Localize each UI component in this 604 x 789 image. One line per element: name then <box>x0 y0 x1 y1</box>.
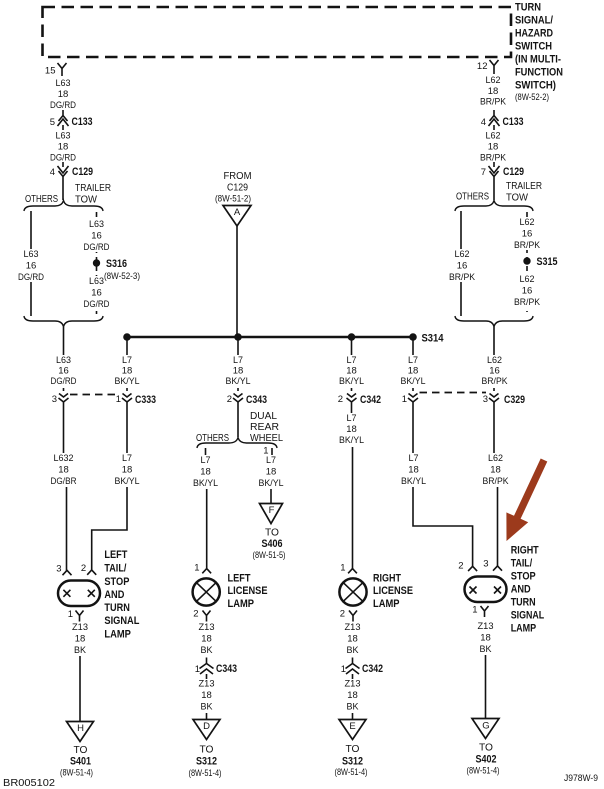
svg-text:BR/PK: BR/PK <box>514 297 541 308</box>
splice S314 <box>409 333 443 345</box>
svg-text:1: 1 <box>472 605 477 616</box>
svg-text:L63: L63 <box>56 78 71 89</box>
svg-text:1: 1 <box>402 394 407 405</box>
right tail lamp pin 2 <box>458 561 477 572</box>
svg-text:L62: L62 <box>488 453 503 464</box>
svg-text:C133: C133 <box>72 116 93 128</box>
wire L62 label (C133 to C129 right) <box>480 131 507 164</box>
svg-text:C333: C333 <box>135 394 156 406</box>
svg-text:Z13: Z13 <box>199 679 215 690</box>
connector C329 pin 3 <box>483 394 525 408</box>
svg-text:18: 18 <box>58 89 69 100</box>
svg-text:3: 3 <box>483 394 488 405</box>
svg-text:TURN: TURN <box>104 602 130 614</box>
svg-text:TO: TO <box>265 528 279 539</box>
svg-text:HAZARD: HAZARD <box>515 28 553 40</box>
svg-text:L7: L7 <box>233 355 243 366</box>
label TO S406 <box>253 528 286 561</box>
label TO S312 (left) <box>189 745 222 779</box>
connector C129 left <box>50 162 93 182</box>
splice S315 <box>523 256 557 268</box>
svg-text:1: 1 <box>340 563 345 574</box>
svg-text:H: H <box>77 723 84 734</box>
wire label L62 16 BR/PK (above C329) <box>480 355 510 388</box>
wire label Z13 18 BK (left tail) <box>72 622 88 656</box>
footer id BR005102 <box>3 778 55 789</box>
svg-text:BR/PK: BR/PK <box>480 153 507 164</box>
wire left tail lamp to ground triangle H <box>79 656 81 722</box>
svg-text:TO: TO <box>200 745 214 756</box>
left tail lamp pin 3 <box>56 564 71 576</box>
svg-text:LAMP: LAMP <box>228 598 255 610</box>
svg-text:18: 18 <box>480 633 491 644</box>
svg-text:BK: BK <box>480 644 493 655</box>
svg-text:18: 18 <box>347 690 358 701</box>
turn signal / hazard switch (dashed box) <box>43 7 512 57</box>
left license lamp pin 1 <box>194 563 211 574</box>
svg-text:AND: AND <box>104 589 124 601</box>
connector C333 pin 1 <box>116 394 156 408</box>
wire label L62 18 BR/PK (below C329) <box>481 453 511 487</box>
svg-text:BR/PK: BR/PK <box>480 97 507 108</box>
svg-text:DG/RD: DG/RD <box>50 153 76 164</box>
wire label L7 18 BK/YL (4th column) <box>399 453 429 487</box>
label DUAL REAR WHEEL <box>250 411 283 444</box>
connector C342 pin 2 <box>338 394 381 408</box>
label TO S401 <box>60 745 93 778</box>
svg-text:18: 18 <box>488 86 499 97</box>
svg-text:DG/BR: DG/BR <box>51 476 77 487</box>
pin 12 <box>477 60 499 74</box>
wire label Z13 18 BK (below C343) <box>199 679 215 713</box>
svg-text:7: 7 <box>481 167 486 178</box>
svg-text:2: 2 <box>227 394 232 405</box>
wire trailer tow branch left (dashed) <box>96 212 98 314</box>
wire label Z13 18 BK (right tail) <box>478 621 494 655</box>
splice S316 <box>93 258 127 270</box>
out triangle D <box>193 720 220 740</box>
connector C342 pin 1 (lower) <box>341 658 383 680</box>
svg-text:1: 1 <box>68 609 73 620</box>
right license lamp name <box>373 573 413 611</box>
connector C133 right <box>481 110 524 130</box>
left license lamp name <box>228 573 268 611</box>
bus wire S314 net <box>127 336 413 339</box>
svg-text:BR005102: BR005102 <box>3 778 55 789</box>
svg-text:C129: C129 <box>227 183 248 194</box>
wire label L62 16 BR/PK (others branch) <box>447 249 477 283</box>
wire bus to C343 pin 2 <box>237 337 239 391</box>
svg-text:TOW: TOW <box>75 195 98 206</box>
svg-text:(8W-51-4): (8W-51-4) <box>189 768 222 778</box>
svg-text:DG/RD: DG/RD <box>50 100 76 111</box>
dashed link C333 <box>70 394 120 396</box>
svg-text:OTHERS: OTHERS <box>25 194 58 205</box>
svg-text:L7: L7 <box>266 455 276 466</box>
label OTHERS (middle) <box>196 433 229 444</box>
wire others branch to left license lamp pin 1 <box>206 448 207 569</box>
svg-text:DG/RD: DG/RD <box>84 242 110 253</box>
svg-text:L62: L62 <box>486 75 501 86</box>
svg-text:18: 18 <box>346 424 357 435</box>
svg-text:C343: C343 <box>216 663 237 675</box>
svg-text:18: 18 <box>347 634 358 645</box>
wire label L7 18 BK/YL (above C342) <box>337 355 366 388</box>
svg-text:(8W-51-4): (8W-51-4) <box>60 768 93 778</box>
svg-text:L62: L62 <box>520 274 535 285</box>
svg-text:FUNCTION: FUNCTION <box>515 67 563 79</box>
svg-text:18: 18 <box>75 634 86 645</box>
wire label L7 18 BK/YL (license branch) <box>191 455 220 489</box>
connector C133 left <box>50 110 93 130</box>
svg-text:Z13: Z13 <box>199 622 215 633</box>
svg-text:4: 4 <box>50 167 55 178</box>
left license lamp pin 2 <box>193 609 210 622</box>
label OTHERS (right) <box>456 192 489 203</box>
svg-text:C133: C133 <box>503 116 524 128</box>
svg-text:RIGHT: RIGHT <box>373 573 401 585</box>
svg-text:L7: L7 <box>409 453 419 464</box>
wire to split <box>62 182 64 200</box>
label TRAILER TOW (right) <box>506 181 542 204</box>
svg-text:BK/YL: BK/YL <box>401 476 426 487</box>
label TO S402 <box>467 743 500 776</box>
highlight arrow (rust colored) <box>506 459 547 542</box>
svg-text:TO: TO <box>74 745 88 756</box>
svg-text:OTHERS: OTHERS <box>456 192 489 203</box>
svg-text:5: 5 <box>50 117 55 128</box>
svg-text:TAIL/: TAIL/ <box>511 558 533 570</box>
svg-text:18: 18 <box>201 690 212 701</box>
svg-text:A: A <box>234 207 241 218</box>
svg-text:BR/PK: BR/PK <box>482 376 509 387</box>
switch name label <box>515 2 563 103</box>
svg-text:(8W-51-2): (8W-51-2) <box>215 194 251 204</box>
svg-text:12: 12 <box>477 61 488 72</box>
wire label L7 18 BK/YL (above C343) <box>224 355 253 388</box>
svg-text:18: 18 <box>490 465 501 476</box>
svg-text:BR/PK: BR/PK <box>514 240 541 251</box>
svg-text:18: 18 <box>122 465 133 476</box>
connector C343 pin 2 <box>227 394 267 408</box>
svg-text:16: 16 <box>457 261 468 272</box>
svg-text:DG/RD: DG/RD <box>18 272 44 283</box>
svg-text:L63: L63 <box>89 219 104 230</box>
svg-text:L632: L632 <box>54 453 74 464</box>
svg-text:18: 18 <box>408 465 419 476</box>
svg-text:BK/YL: BK/YL <box>193 478 218 489</box>
svg-text:2: 2 <box>81 563 86 574</box>
svg-text:18: 18 <box>266 467 277 478</box>
wire C342 to right license lamp pin 1 <box>352 407 353 569</box>
svg-text:LICENSE: LICENSE <box>373 585 413 597</box>
svg-text:(8W-52-3): (8W-52-3) <box>104 271 140 281</box>
svg-text:LAMP: LAMP <box>373 598 400 610</box>
svg-text:16: 16 <box>91 288 102 299</box>
svg-text:C343: C343 <box>246 394 267 406</box>
svg-text:S406: S406 <box>262 538 283 550</box>
footer id J978W-9 <box>564 773 598 783</box>
left tail lamp pin 1 <box>68 609 84 622</box>
svg-text:18: 18 <box>58 142 69 153</box>
wire bus to C329 pin 1 <box>412 337 414 391</box>
svg-text:1: 1 <box>116 394 121 405</box>
svg-text:LEFT: LEFT <box>228 573 251 585</box>
svg-text:L62: L62 <box>486 131 501 142</box>
right tail lamp name <box>511 545 545 635</box>
label TRAILER TOW (left) <box>75 183 111 206</box>
svg-text:J978W-9: J978W-9 <box>564 773 598 783</box>
svg-text:SWITCH: SWITCH <box>515 41 552 53</box>
wire rejoined to C333 pin 3 <box>63 327 65 392</box>
wire others branch right <box>460 211 462 316</box>
svg-text:LAMP: LAMP <box>511 623 537 635</box>
svg-text:LAMP: LAMP <box>104 629 130 641</box>
right license lamp pin 2 <box>340 609 357 622</box>
svg-text:TOW: TOW <box>506 193 529 204</box>
wire label L63 16 DG/RD (above S316) <box>82 219 112 253</box>
svg-text:BK: BK <box>201 645 214 656</box>
out triangle F <box>260 504 283 524</box>
wire to triangle D <box>206 713 208 720</box>
connector C333 pin 3 <box>52 394 69 408</box>
svg-text:16: 16 <box>58 366 69 377</box>
connector C343 pin 1 (lower) <box>195 658 237 680</box>
svg-text:Z13: Z13 <box>478 621 494 632</box>
wire label L7 18 BK/YL (above C329 pin1) <box>399 355 428 388</box>
wire C329 pin 3 to right tail lamp pin 3 <box>494 407 498 566</box>
pin 15 <box>45 63 67 77</box>
svg-text:Z13: Z13 <box>72 622 88 633</box>
junction dot 3 <box>348 333 356 341</box>
rejoin brace left <box>24 316 103 327</box>
svg-text:BK: BK <box>74 645 87 656</box>
svg-text:S315: S315 <box>537 256 558 268</box>
svg-text:BK: BK <box>347 645 360 656</box>
svg-text:18: 18 <box>201 634 212 645</box>
svg-text:18: 18 <box>488 142 499 153</box>
svg-text:LEFT: LEFT <box>104 549 127 561</box>
left tail/stop/turn lamp body <box>58 581 100 607</box>
rejoin brace right <box>455 316 533 327</box>
svg-text:E: E <box>349 721 355 732</box>
svg-text:L7: L7 <box>408 355 418 366</box>
svg-text:SIGNAL: SIGNAL <box>511 610 545 622</box>
svg-text:2: 2 <box>340 609 345 620</box>
svg-text:L7: L7 <box>122 453 132 464</box>
feed triangle A <box>223 206 251 227</box>
svg-text:REAR: REAR <box>250 422 279 433</box>
svg-text:16: 16 <box>26 261 37 272</box>
svg-text:16: 16 <box>91 231 102 242</box>
svg-text:16: 16 <box>522 286 533 297</box>
svg-text:BK: BK <box>347 702 360 713</box>
junction dot 2 <box>234 333 242 341</box>
wire label L62 16 BR/PK (below S315) <box>512 274 542 308</box>
wire label L62 16 BR/PK (above S315) <box>512 217 542 251</box>
svg-text:L7: L7 <box>347 413 357 424</box>
out triangle H <box>67 722 94 742</box>
svg-text:FROM: FROM <box>224 171 252 182</box>
svg-text:(8W-51-5): (8W-51-5) <box>253 550 286 560</box>
wire bus to C333 pin 1 <box>126 337 128 391</box>
svg-text:S316: S316 <box>106 258 127 270</box>
svg-text:C129: C129 <box>503 166 524 178</box>
svg-text:16: 16 <box>489 366 500 377</box>
junction dot 1 <box>123 333 131 341</box>
wire C333 pin 3 to left tail lamp pin 3 <box>64 407 67 571</box>
svg-text:TURN: TURN <box>515 2 541 14</box>
svg-text:L62: L62 <box>455 249 470 260</box>
svg-text:L7: L7 <box>122 355 132 366</box>
svg-text:C329: C329 <box>504 394 525 406</box>
svg-text:TO: TO <box>479 743 493 754</box>
right tail lamp pin 3 <box>483 559 502 571</box>
label TO S312 (right) <box>335 744 368 777</box>
wire dual rear wheel branch <box>271 448 272 504</box>
pin 1 label (dual rear wheel branch) <box>263 446 268 457</box>
svg-text:S312: S312 <box>342 756 363 768</box>
svg-text:18: 18 <box>233 366 244 377</box>
svg-text:S314: S314 <box>422 333 444 345</box>
right tail lamp pin 1 <box>472 605 488 618</box>
svg-text:1: 1 <box>195 664 200 675</box>
label OTHERS (left) <box>25 194 58 205</box>
wire A to bus <box>236 226 238 337</box>
svg-text:TO: TO <box>346 744 360 755</box>
svg-text:18: 18 <box>408 366 419 377</box>
out triangle E <box>339 720 366 740</box>
svg-text:S401: S401 <box>70 756 91 768</box>
wire C333 pin 1 to left tail lamp pin 2 <box>92 407 127 570</box>
wire others branch left <box>30 211 32 316</box>
wire L62 label (pin 12 to C133 right) <box>480 75 507 108</box>
svg-text:AND: AND <box>511 584 531 596</box>
wire label L63 16 DG/RD (above C333) <box>49 355 79 388</box>
svg-text:2: 2 <box>338 394 343 405</box>
svg-text:L62: L62 <box>520 217 535 228</box>
wire label L7 18 BK/YL (below C333) <box>113 453 142 487</box>
wire L63 label (pin 15 to C133) <box>50 78 76 111</box>
svg-text:3: 3 <box>483 559 488 570</box>
svg-text:BK/YL: BK/YL <box>259 478 284 489</box>
svg-text:L63: L63 <box>24 249 39 260</box>
splice S316 reference <box>104 271 140 281</box>
wire C329 pin1 branch to right tail lamp pin 2 <box>413 407 473 567</box>
svg-text:DUAL: DUAL <box>250 411 277 422</box>
split brace left <box>24 201 103 212</box>
svg-text:RIGHT: RIGHT <box>511 545 539 557</box>
left tail lamp name <box>104 549 139 641</box>
connector C129 right <box>481 162 524 182</box>
svg-text:BK/YL: BK/YL <box>115 476 140 487</box>
svg-text:BR/PK: BR/PK <box>483 476 510 487</box>
split brace middle <box>197 438 277 449</box>
wire label L63 16 DG/RD (below S316) <box>82 276 112 310</box>
svg-text:F: F <box>269 505 275 516</box>
out triangle G <box>472 719 499 739</box>
svg-text:L63: L63 <box>89 276 104 287</box>
wire to split right <box>493 182 495 200</box>
wire label L63 16 DG/RD (others branch) <box>16 249 46 283</box>
wire label L7 18 BK/YL (above C333) <box>113 355 142 388</box>
svg-text:SWITCH): SWITCH) <box>515 80 556 92</box>
svg-text:L62: L62 <box>487 355 502 366</box>
svg-text:Z13: Z13 <box>345 679 361 690</box>
right tail/stop/turn lamp body <box>465 577 507 603</box>
svg-text:TURN: TURN <box>511 597 536 609</box>
svg-text:S402: S402 <box>476 754 497 766</box>
wire label Z13 18 BK (right license) <box>345 622 361 656</box>
svg-text:4: 4 <box>481 117 486 128</box>
wire label L7 18 BK/YL (dual rear wheel) <box>257 455 286 489</box>
wire label Z13 18 BK (below C342) <box>345 679 361 713</box>
right license lamp body <box>339 578 366 605</box>
svg-text:18: 18 <box>122 366 133 377</box>
wire bus to C342 pin 2 <box>351 337 353 391</box>
svg-text:1: 1 <box>341 664 346 675</box>
svg-text:BK/YL: BK/YL <box>401 376 426 387</box>
svg-text:2: 2 <box>458 561 463 572</box>
svg-text:Z13: Z13 <box>345 622 361 633</box>
svg-text:2: 2 <box>193 609 198 620</box>
svg-text:(8W-51-4): (8W-51-4) <box>335 767 368 777</box>
svg-text:BK/YL: BK/YL <box>115 376 140 387</box>
svg-text:C129: C129 <box>72 166 93 178</box>
svg-text:3: 3 <box>56 564 61 575</box>
svg-text:D: D <box>203 721 210 732</box>
svg-text:(8W-51-4): (8W-51-4) <box>467 766 500 776</box>
svg-text:BK: BK <box>201 702 214 713</box>
svg-text:TRAILER: TRAILER <box>75 183 111 194</box>
wire label L7 18 BK/YL (below C342) <box>337 413 366 447</box>
left license lamp body <box>193 578 220 605</box>
svg-text:1: 1 <box>194 563 199 574</box>
svg-text:18: 18 <box>200 467 211 478</box>
svg-text:LICENSE: LICENSE <box>228 585 268 597</box>
svg-text:L63: L63 <box>56 355 71 366</box>
svg-text:DG/RD: DG/RD <box>51 376 77 387</box>
left tail lamp pin 2 <box>81 563 96 575</box>
svg-text:16: 16 <box>522 229 533 240</box>
svg-text:BK/YL: BK/YL <box>339 376 364 387</box>
svg-text:(8W-52-2): (8W-52-2) <box>515 92 549 102</box>
svg-text:STOP: STOP <box>511 571 536 583</box>
wire rejoined to C329 pin 3 <box>493 327 495 392</box>
wire label L632 18 DG/BR <box>49 453 80 487</box>
svg-text:STOP: STOP <box>104 576 129 588</box>
svg-text:C342: C342 <box>362 663 383 675</box>
right license lamp pin 1 <box>340 563 357 574</box>
wire right tail lamp to triangle G <box>485 655 487 719</box>
split brace right <box>455 201 533 212</box>
svg-text:18: 18 <box>58 465 69 476</box>
wire trailer tow branch right (dashed) <box>526 212 528 312</box>
svg-text:L7: L7 <box>201 455 211 466</box>
connector C329 pin 1 (half, on L7 wire) <box>402 394 418 408</box>
svg-text:SIGNAL/: SIGNAL/ <box>515 15 553 27</box>
svg-text:C342: C342 <box>360 394 381 406</box>
svg-text:TAIL/: TAIL/ <box>104 563 126 575</box>
wire L63 label (C133 to C129) <box>50 131 76 164</box>
wire label Z13 18 BK (left license) <box>199 622 215 656</box>
svg-text:18: 18 <box>346 366 357 377</box>
wire to triangle E <box>352 713 354 720</box>
svg-text:G: G <box>482 721 489 732</box>
svg-text:L63: L63 <box>56 131 71 142</box>
svg-text:BR/PK: BR/PK <box>449 272 476 283</box>
svg-text:SIGNAL: SIGNAL <box>104 615 139 627</box>
